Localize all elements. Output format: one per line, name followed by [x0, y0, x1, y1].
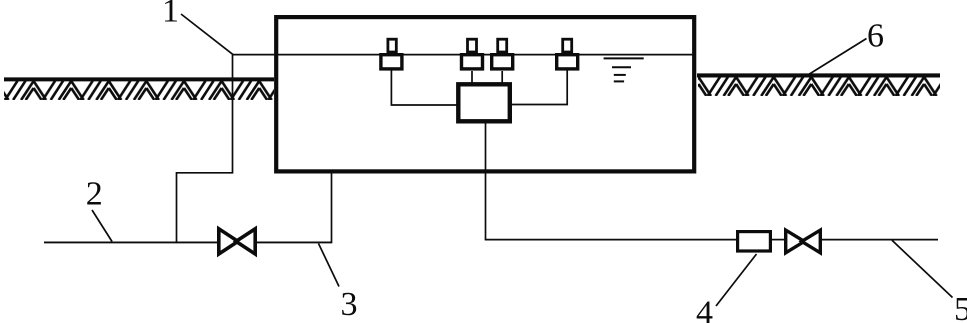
- svg-text:4: 4: [696, 295, 713, 323]
- float switch S4 body: [557, 39, 578, 69]
- ground hatch right: [698, 77, 940, 96]
- svg-text:1: 1: [162, 0, 179, 30]
- pipe 5 segment c: [822, 239, 938, 241]
- pipe 2 right segment: [257, 241, 332, 243]
- wire: inlet / water level line: [233, 54, 694, 56]
- float switch S2 body: [462, 39, 483, 69]
- wire: tank drain riser: [331, 171, 333, 243]
- wire: S3 to control box: [501, 71, 503, 83]
- svg-text:3: 3: [341, 286, 358, 323]
- ground line left: [4, 77, 274, 81]
- float switch S3 body: [492, 39, 513, 69]
- wire: S2 to control box: [471, 71, 473, 83]
- pipe 5 segment b: [771, 239, 785, 241]
- pipe 2 left segment: [44, 241, 218, 243]
- leader line 6: [807, 39, 867, 76]
- water meter M1: [738, 232, 771, 251]
- svg-text:2: 2: [86, 176, 103, 213]
- svg-text:5: 5: [954, 291, 967, 323]
- leader line 1: [181, 14, 233, 55]
- float switch S1 body: [381, 39, 402, 69]
- ground hatch left: [4, 81, 274, 100]
- valve V2 (gate valve bowtie): [786, 230, 821, 253]
- wire: S1 to control box: [391, 71, 457, 106]
- wire: outlet down from control box: [485, 121, 487, 240]
- wire: inlet horizontal step: [177, 172, 234, 174]
- wire: inlet riser at node 1: [232, 55, 234, 173]
- leader line 4: [716, 254, 757, 306]
- svg-text:6: 6: [867, 18, 884, 55]
- wire: S4 to control box: [511, 71, 567, 105]
- pipe 5 segment a: [485, 239, 738, 241]
- leader line 3: [319, 244, 340, 287]
- tank (reservoir): [276, 17, 694, 171]
- leader line 2: [92, 210, 112, 242]
- water level symbol: [604, 58, 644, 81]
- leader line 5: [892, 240, 953, 297]
- ground line right: [697, 73, 940, 77]
- valve V1 (gate valve bowtie): [219, 229, 255, 254]
- control box U1: [458, 84, 510, 121]
- wire: inlet down step: [176, 172, 178, 243]
